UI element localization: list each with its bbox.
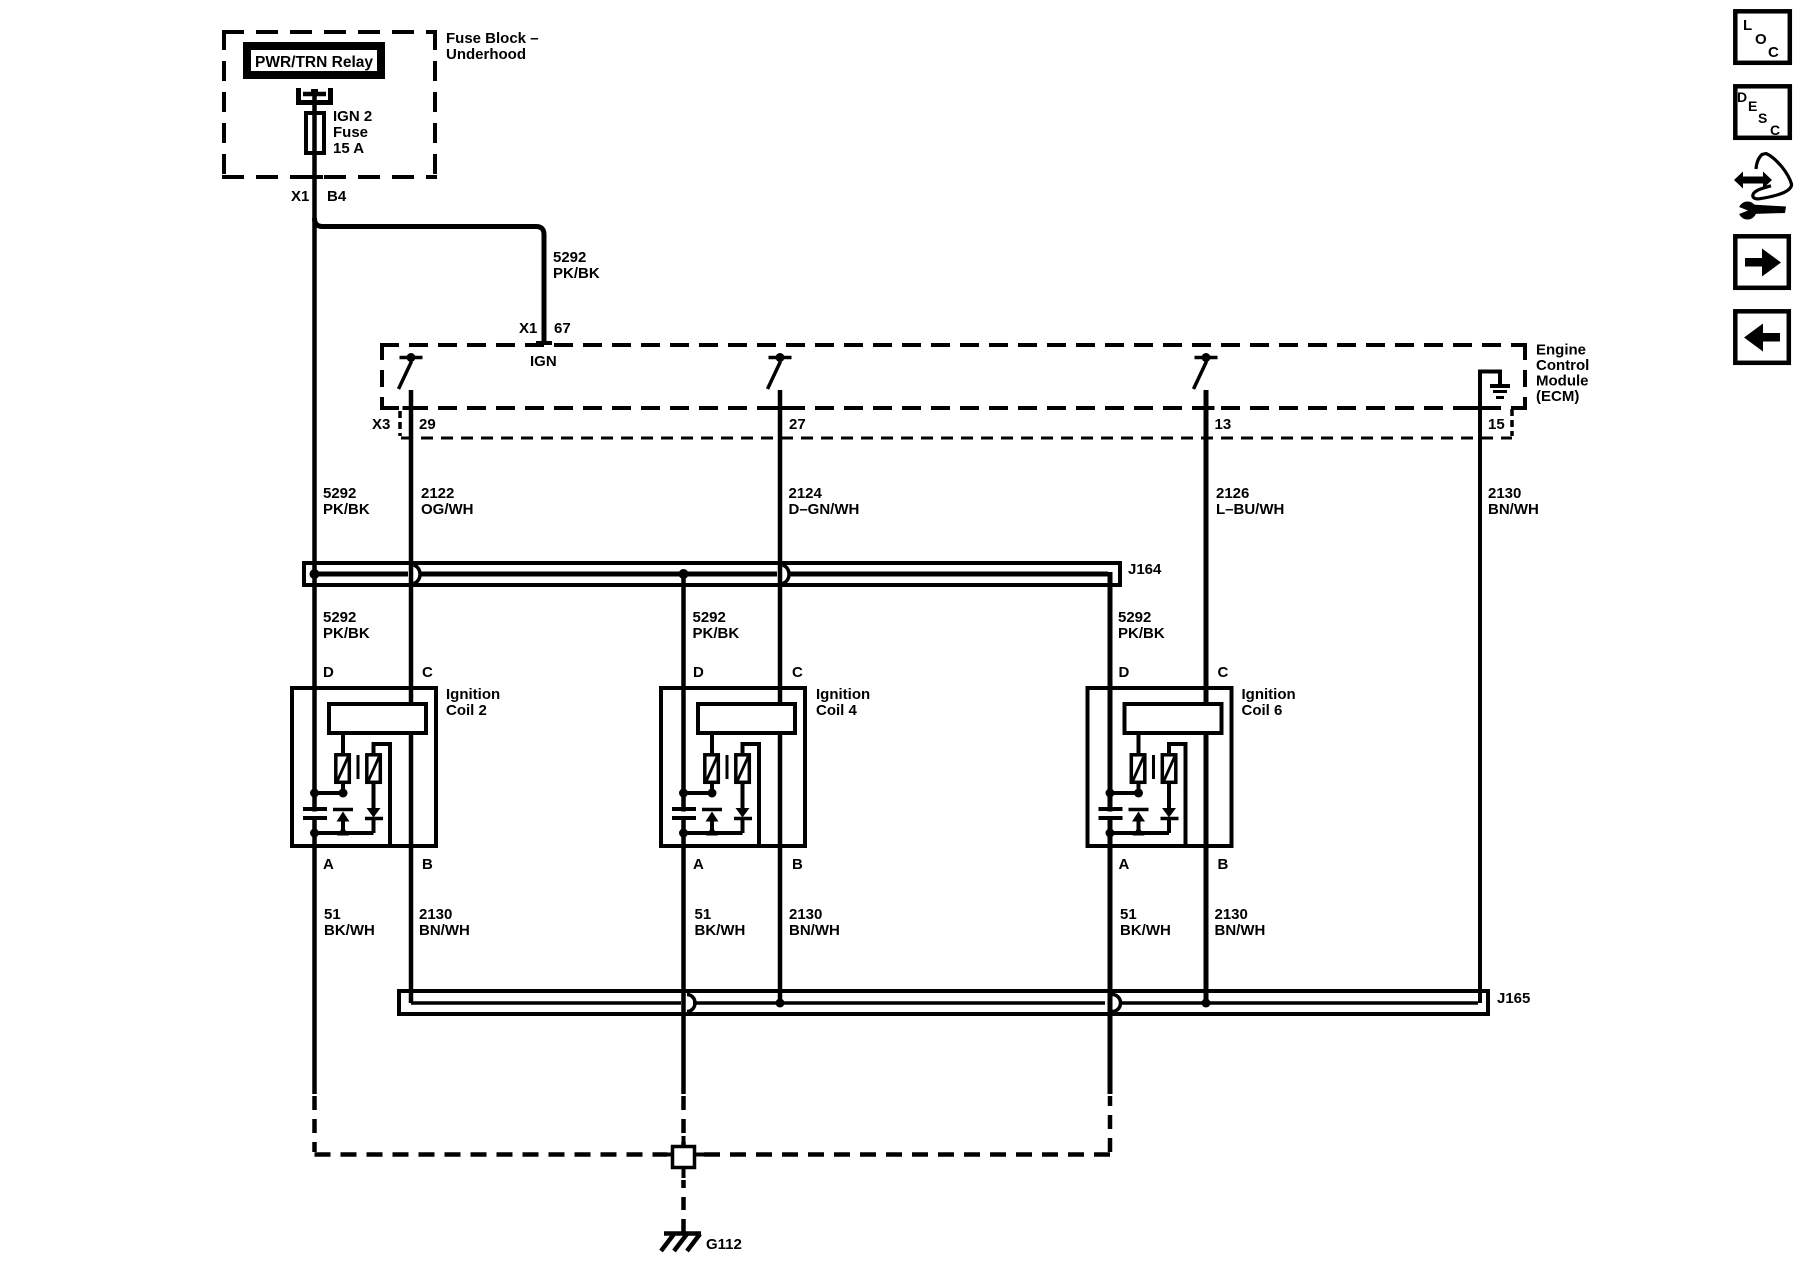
splice pack J164	[304, 563, 1120, 585]
svg-text:X1: X1	[291, 188, 309, 205]
svg-text:BK/WH: BK/WH	[324, 922, 375, 939]
svg-text:J165: J165	[1497, 990, 1530, 1007]
ignition coil 4	[661, 688, 805, 846]
svg-text:2130: 2130	[1215, 906, 1248, 923]
svg-text:L: L	[1743, 17, 1752, 34]
svg-text:BN/WH: BN/WH	[1215, 922, 1266, 939]
dashed ground bus horizontal	[315, 1152, 668, 1157]
dashed wire to ground G112	[681, 1180, 686, 1232]
svg-text:5292: 5292	[323, 485, 356, 502]
svg-text:PK/BK: PK/BK	[1118, 625, 1165, 642]
svg-text:C: C	[792, 664, 803, 681]
wire: 5292 feed from fuse down to J164	[312, 90, 317, 574]
icon arrow left	[1735, 311, 1789, 363]
svg-text:BK/WH: BK/WH	[695, 922, 746, 939]
svg-text:D: D	[1119, 664, 1130, 681]
svg-text:D: D	[323, 664, 334, 681]
svg-text:15 A: 15 A	[333, 140, 364, 157]
svg-text:D: D	[693, 664, 704, 681]
ground symbol G112	[661, 1234, 701, 1252]
ignition coil 6	[1088, 688, 1232, 846]
svg-text:27: 27	[789, 416, 806, 433]
tick where gnd wire crosses ECM bottom	[1472, 406, 1489, 410]
icon LOC	[1735, 11, 1790, 63]
svg-text:Coil 2: Coil 2	[446, 702, 487, 719]
svg-text:5292: 5292	[1118, 609, 1151, 626]
svg-text:IGN 2: IGN 2	[333, 108, 372, 125]
svg-text:Fuse Block –: Fuse Block –	[446, 30, 539, 47]
ECM driver transistor 2	[769, 356, 792, 360]
svg-text:C: C	[1218, 664, 1229, 681]
svg-text:2130: 2130	[1488, 485, 1521, 502]
icon repair (arrow, outline, wrench)	[1729, 154, 1792, 220]
svg-text:Ignition: Ignition	[446, 686, 500, 703]
ECM driver transistor 3	[1195, 356, 1218, 360]
svg-text:E: E	[1748, 98, 1757, 114]
dashed wire A1 down	[312, 1096, 317, 1152]
svg-text:L–BU/WH: L–BU/WH	[1216, 501, 1284, 518]
svg-text:O: O	[1755, 31, 1767, 48]
svg-text:X3: X3	[372, 416, 390, 433]
svg-text:(ECM): (ECM)	[1536, 388, 1579, 405]
svg-text:51: 51	[695, 906, 712, 923]
svg-text:Underhood: Underhood	[446, 46, 526, 63]
svg-text:BN/WH: BN/WH	[419, 922, 470, 939]
svg-text:2130: 2130	[419, 906, 452, 923]
splice pack J165	[399, 991, 1488, 1014]
wire: 2130 BN/WH from ECM pin 15 down to J165	[1478, 372, 1482, 1004]
svg-text:5292: 5292	[323, 609, 356, 626]
svg-text:Engine: Engine	[1536, 342, 1586, 359]
svg-text:S: S	[1758, 110, 1767, 126]
svg-text:C: C	[1770, 122, 1780, 138]
svg-text:BN/WH: BN/WH	[1488, 501, 1539, 518]
svg-text:C: C	[1768, 44, 1779, 61]
svg-text:5292: 5292	[553, 249, 586, 266]
right connector edge dashes	[1510, 409, 1514, 436]
fuse IGN 2 15A	[306, 113, 324, 153]
svg-text:Ignition: Ignition	[816, 686, 870, 703]
svg-text:B: B	[422, 856, 433, 873]
svg-text:PK/BK: PK/BK	[693, 625, 740, 642]
svg-text:2122: 2122	[421, 485, 454, 502]
relay contact bar	[303, 92, 326, 97]
svg-text:13: 13	[1215, 416, 1232, 433]
svg-text:Fuse: Fuse	[333, 124, 368, 141]
wire: 2124 D-GN/WH driver2 to coil4 C	[778, 390, 783, 1003]
svg-text:PK/BK: PK/BK	[323, 625, 370, 642]
ECM dashed box	[380, 343, 1527, 347]
svg-text:Ignition: Ignition	[1242, 686, 1296, 703]
svg-text:G112: G112	[706, 1236, 742, 1253]
svg-text:Coil 6: Coil 6	[1242, 702, 1283, 719]
ECM driver transistor 1	[400, 356, 423, 360]
svg-text:OG/WH: OG/WH	[421, 501, 474, 518]
ECM internal ground at pin 15	[1478, 372, 1500, 385]
svg-text:5292: 5292	[693, 609, 726, 626]
tick where driver wire crosses ECM bottom	[403, 406, 420, 410]
svg-text:A: A	[693, 856, 704, 873]
J165 crossing chevron at A3	[1113, 995, 1121, 1012]
svg-text:PK/BK: PK/BK	[323, 501, 370, 518]
svg-text:PK/BK: PK/BK	[553, 265, 600, 282]
svg-text:2124: 2124	[789, 485, 823, 502]
svg-text:A: A	[1119, 856, 1130, 873]
wire: 2122 OG/WH driver1 to coil2 C	[409, 390, 414, 1003]
svg-text:J164: J164	[1128, 561, 1162, 578]
icon arrow right	[1735, 236, 1789, 287]
svg-text:Coil 4: Coil 4	[816, 702, 857, 719]
wire: 5292 PK/BK J164 elbow to coil6 D and 51 BK/WH below	[1108, 572, 1113, 1094]
svg-text:51: 51	[324, 906, 341, 923]
J164 crossing chevron at 2122	[414, 565, 421, 584]
wire: 5292 PK/BK J164 to coil4 D and 51 BK/WH below	[681, 574, 686, 1094]
relay contact terminal bracket	[299, 88, 331, 103]
svg-text:A: A	[323, 856, 334, 873]
svg-text:15: 15	[1488, 416, 1505, 433]
svg-text:B: B	[1218, 856, 1229, 873]
X3 separator dashes	[398, 411, 402, 436]
wire: thick branch from feed to ECM pin X1-67	[315, 218, 545, 345]
ground connector box	[673, 1147, 695, 1168]
svg-text:67: 67	[554, 320, 571, 337]
ignition coil 2	[292, 688, 436, 846]
fuse block underhood dashed box	[222, 30, 437, 34]
dashed wire A2 down	[681, 1096, 686, 1145]
tick where X1-67 wire crosses ECM top	[536, 341, 552, 345]
J164 crossing chevron at 2124	[783, 565, 790, 584]
svg-text:2126: 2126	[1216, 485, 1249, 502]
svg-text:D: D	[1737, 89, 1747, 105]
tick where driver wire crosses ECM bottom	[1198, 406, 1215, 410]
svg-text:29: 29	[419, 416, 436, 433]
tick where driver wire crosses ECM bottom	[772, 406, 789, 410]
ECM X3 connector fine dashed line	[401, 437, 1512, 440]
svg-text:Module: Module	[1536, 373, 1589, 390]
svg-text:BN/WH: BN/WH	[789, 922, 840, 939]
J165 crossing chevron at A2	[687, 995, 695, 1012]
dashed wire A3 down	[1108, 1096, 1113, 1152]
svg-text:PWR/TRN Relay: PWR/TRN Relay	[255, 54, 373, 71]
svg-text:B4: B4	[327, 188, 347, 205]
svg-text:2130: 2130	[789, 906, 822, 923]
svg-text:51: 51	[1120, 906, 1137, 923]
wire: 5292 PK/BK J164 to coil2 D and 51 BK/WH below	[312, 574, 317, 1094]
wire: 2126 L-BU/WH driver3 to coil6 C	[1204, 390, 1209, 1003]
relay PWR/TRN box	[247, 46, 381, 75]
tick where wire crosses fuse box bottom	[306, 175, 323, 179]
icon DESC	[1735, 86, 1790, 138]
svg-text:B: B	[792, 856, 803, 873]
svg-text:Control: Control	[1536, 357, 1589, 374]
svg-text:C: C	[422, 664, 433, 681]
svg-text:D–GN/WH: D–GN/WH	[789, 501, 860, 518]
svg-text:IGN: IGN	[530, 353, 557, 370]
svg-text:X1: X1	[519, 320, 537, 337]
svg-text:BK/WH: BK/WH	[1120, 922, 1171, 939]
